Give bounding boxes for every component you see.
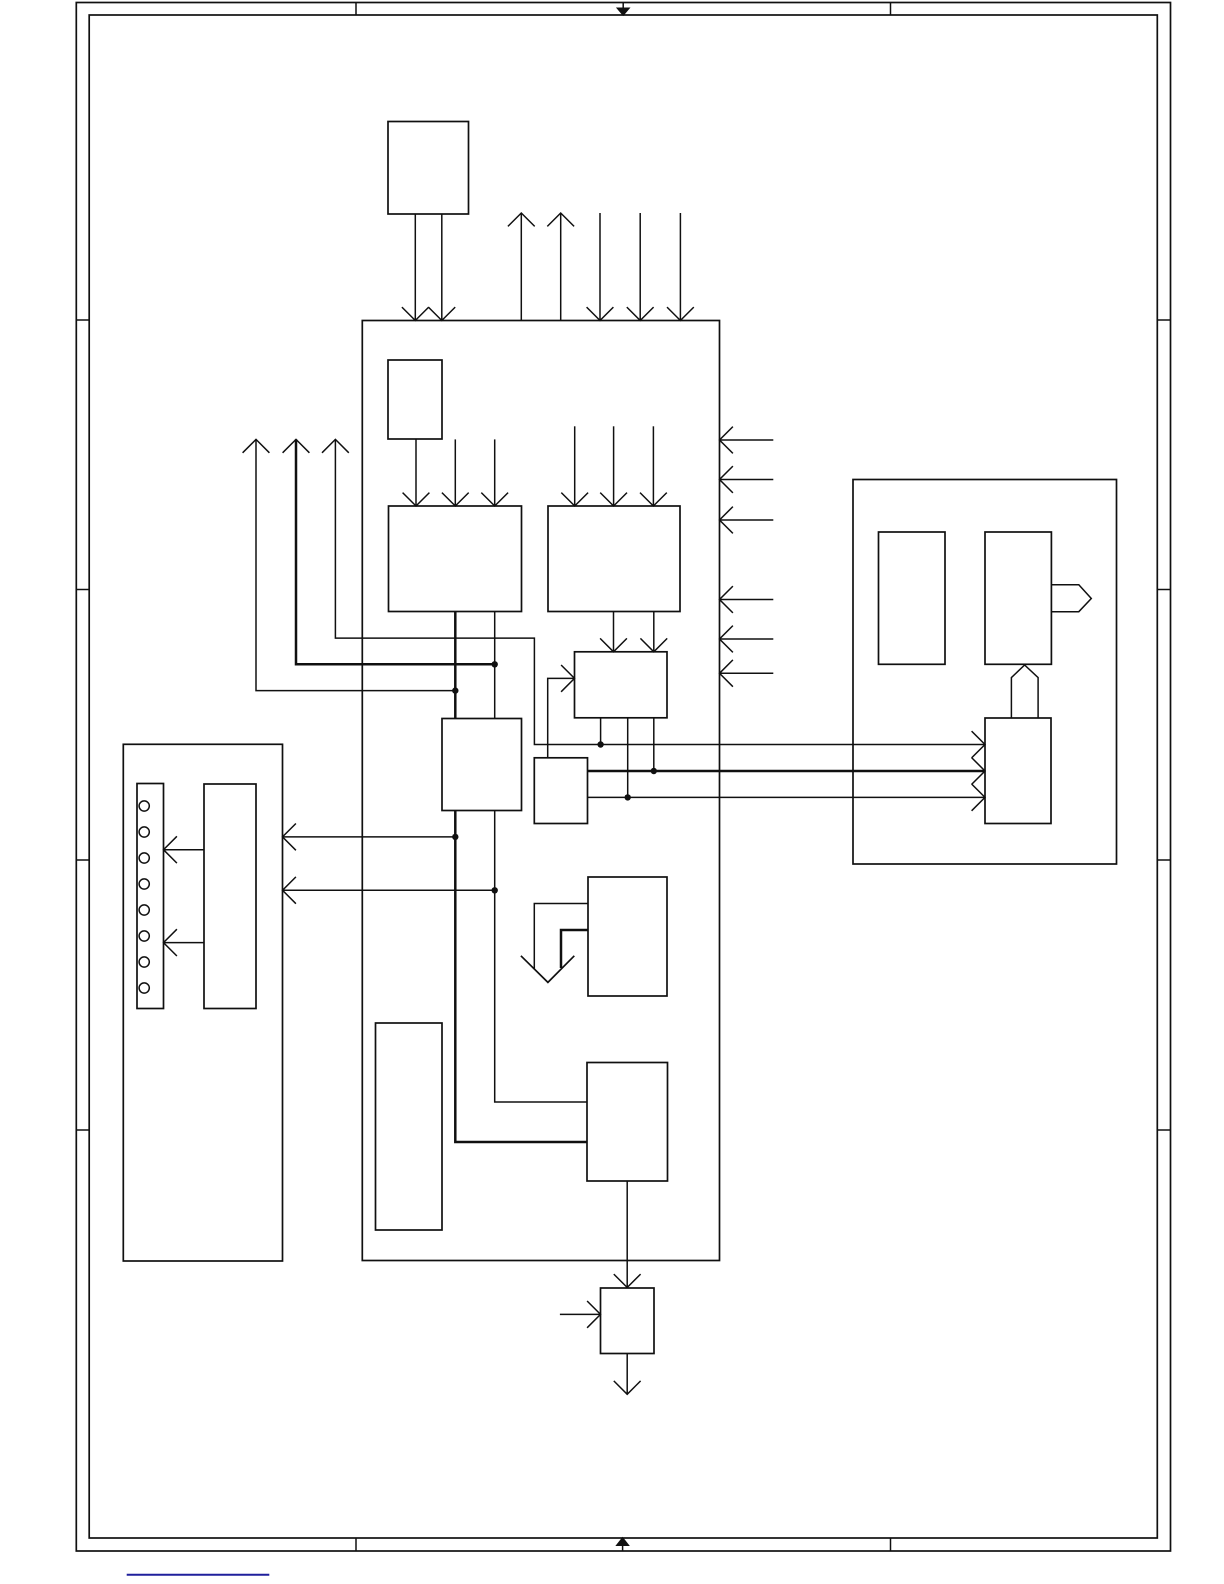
border tick top-right (890, 3, 892, 16)
arrowhead down at central box top x415 (402, 307, 429, 320)
block: connector pin strip (137, 784, 164, 1009)
wire input 3 to right register (652, 426, 654, 506)
pin circle 4 (139, 879, 149, 889)
wire small box output thin down to bottom block (495, 811, 587, 1103)
wire mux output stub 2 (627, 718, 629, 798)
border tick bottom-right (890, 1538, 892, 1551)
wire mux output stub 1 (600, 718, 602, 745)
arrowhead left at box edge y599 (720, 586, 733, 613)
arrowhead down at x614 right register top (600, 493, 627, 506)
block: small box left of mux (534, 758, 587, 824)
arrowhead down at x640 (627, 307, 654, 320)
wire left register output thin (494, 612, 496, 719)
arrowhead down at small output box top (614, 1274, 641, 1287)
wire right register to mux 1 (613, 612, 615, 652)
junction dot x455 y690 (452, 687, 458, 693)
wire small box up to mux left input (548, 678, 575, 757)
border tick right 4 (1157, 1129, 1170, 1131)
border tick right 3 (1157, 859, 1170, 861)
block: small output box below central (601, 1288, 655, 1354)
wire down-input 2 to central box top (639, 213, 641, 321)
wire input 2 to left register (454, 439, 456, 506)
block: box with loop output (588, 877, 667, 996)
up pointer between inner boxes (1011, 665, 1038, 718)
arrowhead right into right sub-block y744 (972, 731, 985, 758)
blue footer underline (127, 1574, 270, 1576)
wire to left connector box y837 (283, 836, 456, 838)
junction dot x601 y744 (597, 741, 603, 747)
wire driver to pins 2 (164, 942, 205, 944)
pin circle 3 (139, 853, 149, 863)
arrowhead down at x600 (587, 307, 614, 320)
wire small box to left register (415, 439, 417, 506)
pin circle 5 (139, 905, 149, 915)
block: bottom box inside central (587, 1063, 668, 1182)
border tick left 4 (76, 1129, 89, 1131)
wire left register output thick (454, 612, 457, 719)
wire up-output 2 from central box top (560, 213, 562, 321)
arrowhead right into right sub-block y797 (972, 784, 985, 811)
block: inner small box upper-left (388, 360, 442, 439)
arrowhead left at box edge y520 (720, 507, 733, 534)
wire driver to pins 1 (164, 849, 205, 851)
wire output box down (626, 1354, 628, 1395)
wire down-input 1 to central box top (599, 213, 601, 321)
border tick left 3 (76, 859, 89, 861)
wire bottom box output down (626, 1181, 628, 1288)
border tick top-left (355, 3, 357, 16)
block: right inner box 3 (985, 718, 1051, 824)
wire right-side input 3 (720, 519, 774, 521)
arrowhead left at pin strip y850 (164, 836, 177, 863)
wire right-side input 5 (720, 638, 774, 640)
arrowhead down at mux top x613 (600, 638, 627, 651)
arrowhead left at connector box y890 (283, 877, 296, 904)
junction dot x628 y797 (625, 794, 631, 800)
wire right-side input 2 (720, 479, 774, 481)
wire right-side input 1 (720, 439, 774, 441)
arrowhead left at box edge y673 (720, 660, 733, 687)
arrowhead down at central box top x442 (428, 307, 455, 320)
arrowhead right into right sub-block y771 (972, 758, 985, 785)
junction dot x654 y771 (651, 768, 657, 774)
block: right outer box (853, 480, 1117, 865)
block: left connector box (123, 744, 282, 1261)
wire top box to central box right line (441, 214, 443, 321)
arrowhead left at box edge y639 (720, 626, 733, 653)
wire input 1 to right register (574, 426, 576, 506)
pin circle 2 (139, 827, 149, 837)
block: right inner box 1 (879, 532, 946, 664)
wire side input to output box (560, 1313, 601, 1315)
pin circle 1 (139, 801, 149, 811)
arrowhead down at x653 right register top (640, 493, 667, 506)
arrowhead left at box edge y440 (720, 427, 733, 454)
border tick right 2 (1157, 589, 1170, 591)
wire loop outer thin (534, 904, 588, 970)
wire right register to mux 2 (653, 612, 655, 652)
pin circle 6 (139, 931, 149, 941)
arrowhead right at mux left edge (561, 665, 574, 692)
block: central large box (362, 321, 719, 1261)
wire small box output thick down to bottom block (455, 811, 587, 1143)
wire to right block thin (588, 796, 986, 798)
block: small box below left register (442, 719, 522, 811)
border tick left 1 (76, 319, 89, 321)
top center marker (618, 3, 629, 16)
border tick left 2 (76, 589, 89, 591)
arrowhead right at output box left edge (587, 1301, 600, 1328)
arrowhead down at x575 right register top (561, 493, 588, 506)
junction dot x495 y664 (492, 661, 498, 667)
wire feedback up-arrow 3 and long route to right block (335, 439, 985, 744)
arrowhead down at x495 left register top (481, 493, 508, 506)
arrowhead up at x521 (508, 213, 535, 226)
arrowhead up at x296 (283, 439, 310, 452)
wire loop inner thick (561, 930, 588, 968)
border tick right 1 (1157, 319, 1170, 321)
bottom center marker (617, 1538, 628, 1551)
arrowhead wide down for loop (521, 956, 574, 983)
arrowhead left at box edge y479 (720, 466, 733, 493)
arrowhead up at x335 (322, 439, 349, 452)
block: top box (388, 122, 469, 215)
arrowhead down at x416 left register top (403, 493, 430, 506)
block: right inner box 2 (985, 532, 1051, 664)
wire bus to right block thick (588, 770, 986, 773)
arrowhead down at mux top x654 (640, 638, 667, 651)
wire input 3 to left register (494, 439, 496, 506)
wire up-output 1 from central box top (520, 213, 522, 321)
arrowhead down open end (614, 1381, 641, 1394)
wire top box to central box left line (414, 214, 416, 321)
block: tall narrow box bottom-left (376, 1023, 443, 1230)
arrowhead up at x561 (547, 213, 574, 226)
pin circle 8 (139, 983, 149, 993)
junction dot x495 y890 (492, 887, 498, 893)
arrowhead down at x455 left register top (442, 493, 469, 506)
block: inner right register box (548, 506, 680, 612)
pentagon pointer output of inner box 2 (1051, 585, 1091, 612)
border tick bottom-left (355, 1538, 357, 1551)
wire to left connector box y890 (283, 889, 495, 891)
wire feedback up-arrow 1 (256, 439, 455, 690)
wire right-side input 4 (720, 599, 774, 601)
wire input 2 to right register (613, 426, 615, 506)
arrowhead up at x256 (243, 439, 270, 452)
block: inner left register box (389, 506, 522, 612)
wire right-side input 6 (720, 672, 774, 674)
wire feedback up-arrow 2 thick (296, 439, 495, 664)
wire down-input 3 to central box top (679, 213, 681, 321)
block: mux box (575, 652, 668, 718)
wire mux output stub 3 (653, 718, 655, 771)
arrowhead left at pin strip y943 (164, 929, 177, 956)
arrowhead down at x680 (667, 307, 694, 320)
pin circle 7 (139, 957, 149, 967)
arrowhead left at connector box y837 (283, 824, 296, 851)
block: driver box inside connector (204, 784, 256, 1009)
junction dot x455 y837 (452, 834, 458, 840)
